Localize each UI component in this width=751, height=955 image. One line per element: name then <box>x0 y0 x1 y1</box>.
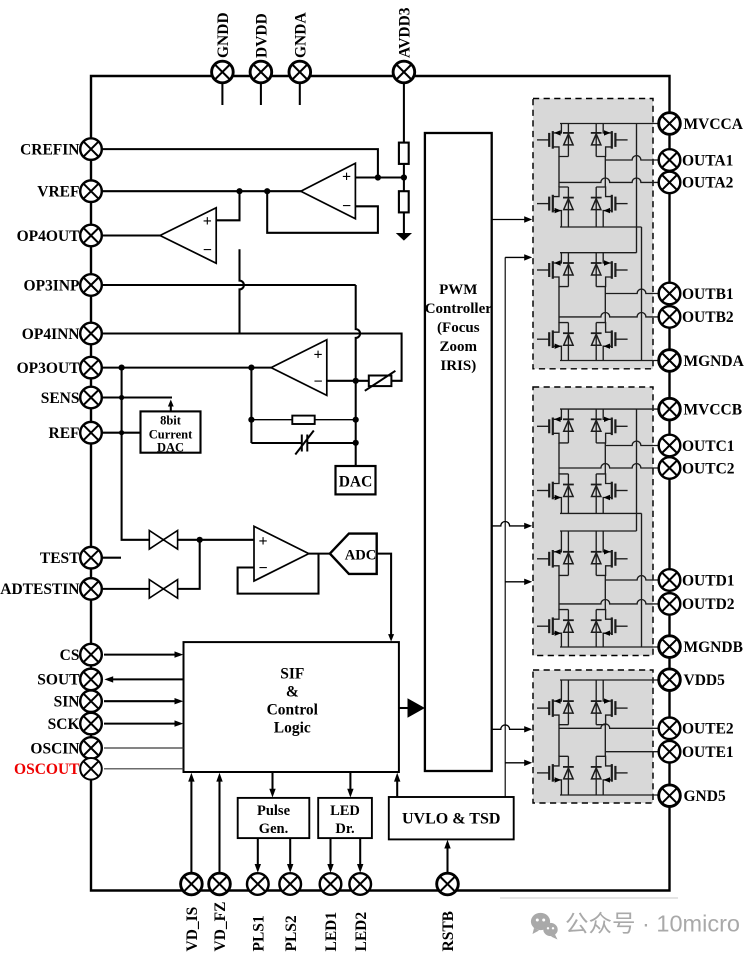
wire bridgeC top rail <box>560 679 670 681</box>
pin OSCIN <box>30 737 101 759</box>
wire bridgeA1 lower output <box>559 178 670 182</box>
wire bridgeB1 left mid node <box>558 443 560 474</box>
pin PLS2 <box>279 873 301 951</box>
wire stub below pin DVDD <box>260 83 262 106</box>
op-amp U2 (OP4) <box>160 208 216 263</box>
block SIF Control Logic <box>184 642 399 772</box>
svg-text:−: − <box>258 560 267 577</box>
op-amp U4 (ADC buffer) <box>254 526 309 581</box>
wire PWM to bridge C phase1 (hop) <box>492 725 533 733</box>
svg-text:OP4OUT: OP4OUT <box>17 228 81 245</box>
pin OUTE1 <box>659 741 734 763</box>
label PWM Controller <box>425 282 493 374</box>
pin OUTB1 <box>659 283 734 305</box>
svg-text:+: + <box>258 533 267 550</box>
wire U3 inverting stub through varistor node <box>327 380 369 382</box>
svg-text:SIF: SIF <box>280 666 304 683</box>
svg-text:DAC: DAC <box>339 474 373 491</box>
wire OP3INP down to U3 network (hop over OP4INN) <box>356 285 360 466</box>
wire R3 line <box>251 419 355 421</box>
transistor Q15 <box>537 610 568 647</box>
diode D4 (body diode) <box>591 187 602 227</box>
diode D14 (body diode) <box>591 531 602 575</box>
label UVLO TSD <box>402 811 500 828</box>
svg-text:VDD5: VDD5 <box>684 672 726 689</box>
svg-text:OP3OUT: OP3OUT <box>17 360 81 377</box>
resistor R1 <box>399 143 409 164</box>
diode D20 (body diode) <box>591 756 602 795</box>
transistor Q12 <box>596 474 627 514</box>
wire bridgeB1 right mid node <box>604 443 606 474</box>
svg-text:LED: LED <box>330 803 360 819</box>
wire U2 noninverting input to VREF <box>216 191 239 220</box>
wire LED Dr to LED2 <box>357 838 363 873</box>
wire REF line <box>92 432 141 434</box>
svg-text:Pulse: Pulse <box>257 803 291 819</box>
svg-text:Logic: Logic <box>274 720 311 737</box>
transistor Q17 <box>537 680 568 725</box>
svg-text:OUTC1: OUTC1 <box>682 438 735 455</box>
resistor R2 <box>399 191 409 212</box>
diode D13 (body diode) <box>563 531 574 575</box>
wire MVCC bus A <box>636 124 638 253</box>
label DAC <box>339 474 373 491</box>
pin MVCCA <box>659 113 744 135</box>
pin MGNDB <box>659 636 743 658</box>
transistor Q10 <box>596 409 627 443</box>
svg-text:CREFIN: CREFIN <box>20 141 79 158</box>
node CREFIN junction <box>375 174 381 180</box>
svg-text:MVCCB: MVCCB <box>684 401 743 418</box>
block LED Dr <box>318 798 372 838</box>
pin OP3INP <box>24 274 102 296</box>
node VREF-A <box>236 188 242 194</box>
svg-text:VREF: VREF <box>37 184 79 201</box>
pin TEST <box>40 547 102 569</box>
wire bridgeA1 left mid node <box>558 157 560 188</box>
transistor Q2 <box>596 124 627 157</box>
wire C1 line right <box>307 442 355 444</box>
wire mux line to comparator input <box>149 539 254 541</box>
node R3 left <box>248 417 254 423</box>
transistor Q1 <box>537 124 568 157</box>
wire bridgeB2 lower output <box>559 600 670 604</box>
transistor Q4 <box>596 187 627 227</box>
svg-text:REF: REF <box>49 425 80 442</box>
block DAC box <box>336 466 376 494</box>
diode D2 (body diode) <box>591 124 602 157</box>
svg-text:SIN: SIN <box>54 694 80 711</box>
pin SCK <box>48 713 102 735</box>
svg-text:OUTB2: OUTB2 <box>682 309 734 326</box>
svg-text:8bit: 8bit <box>160 414 182 428</box>
wire R2 to ground <box>403 212 405 233</box>
wire 8bit DAC output up to SENS <box>168 400 174 412</box>
wire bridgeA2 bottom rail <box>560 360 670 362</box>
wire bridgeB1 top rail <box>560 408 670 410</box>
svg-text:UVLO & TSD: UVLO & TSD <box>402 811 500 828</box>
wire U4 feedback loop <box>238 554 319 594</box>
transistor Q6 <box>596 253 627 287</box>
pin OUTB2 <box>659 306 734 328</box>
svg-text:&: & <box>286 684 299 701</box>
diode D1 (body diode) <box>563 124 574 157</box>
svg-text:−: − <box>203 242 212 259</box>
wire OSCIN to SIF <box>104 747 184 749</box>
svg-text:PLS1: PLS1 <box>250 915 267 951</box>
node divider junction <box>401 174 407 180</box>
wire SIF to SOUT <box>104 676 183 682</box>
svg-text:CS: CS <box>60 647 80 664</box>
pin VREF <box>37 180 102 202</box>
node REF tap <box>119 430 124 435</box>
transistor Q8 <box>596 323 627 361</box>
svg-text:+: + <box>342 169 351 186</box>
svg-text:DVDD: DVDD <box>254 13 271 58</box>
fat arrow SIF to PWM <box>399 698 425 717</box>
transistor Q11 <box>537 474 568 514</box>
svg-text:PLS2: PLS2 <box>283 915 300 951</box>
svg-text:Control: Control <box>267 702 319 719</box>
svg-text:OP3INP: OP3INP <box>24 277 81 294</box>
watermark text <box>565 911 740 937</box>
wire bridgeB1 bottom rail <box>560 512 642 514</box>
wire bridgeA1 upper output <box>605 156 669 160</box>
wire stub below pin GNDA <box>299 83 301 106</box>
svg-text:MGNDA: MGNDA <box>684 353 745 370</box>
wire bridgeA2 top rail <box>560 252 637 254</box>
svg-text:OUTE2: OUTE2 <box>682 721 734 738</box>
svg-text:+: + <box>313 346 322 363</box>
block PWM Controller <box>425 133 492 771</box>
svg-text:Controller: Controller <box>425 301 493 317</box>
transistor Q18 <box>596 680 627 725</box>
label LED Dr <box>330 803 360 837</box>
watermark underline <box>500 897 678 899</box>
svg-text:(Focus: (Focus <box>437 320 480 336</box>
resistor R3 <box>292 416 314 424</box>
pin OP4OUT <box>17 225 102 247</box>
block ADC pentagon <box>330 534 377 574</box>
svg-text:OSCIN: OSCIN <box>30 740 79 757</box>
wire U1 feedback loop <box>267 191 378 233</box>
pin MVCCB <box>659 398 742 420</box>
transistor Q16 <box>596 610 627 647</box>
transistor Q5 <box>537 253 568 287</box>
pin CS <box>60 644 102 666</box>
pin SENS <box>41 387 102 409</box>
svg-text:GNDA: GNDA <box>292 12 309 58</box>
chip outer border <box>91 76 670 891</box>
svg-text:−: − <box>313 373 322 390</box>
op-amp U3 (OP3) <box>271 340 327 396</box>
wire PWM to bridge A phase1 <box>492 216 533 222</box>
svg-text:LED1: LED1 <box>323 912 340 952</box>
wire bridgeA2 upper output <box>605 289 669 293</box>
wire bridgeC right mid node <box>604 725 606 757</box>
node U3 output junction <box>248 365 254 371</box>
transistor Q7 <box>537 323 568 361</box>
node R3 right <box>353 417 359 423</box>
node OP3OUT-tap <box>119 365 125 371</box>
diode D18 (body diode) <box>591 680 602 725</box>
wire SIF down to Pulse Gen <box>269 772 275 798</box>
svg-text:OUTD2: OUTD2 <box>682 596 735 613</box>
wire LED Dr to LED1 <box>327 838 333 873</box>
pin OP4INN <box>22 323 102 345</box>
pin OUTD2 <box>659 593 735 615</box>
pin DVDD (power pad) <box>250 13 272 83</box>
svg-text:SENS: SENS <box>41 390 80 407</box>
pin AVDD3 (power pad) <box>393 7 415 83</box>
transmission gate TG2 <box>149 580 177 599</box>
svg-text:MVCCA: MVCCA <box>684 116 744 133</box>
wire U2 inverting input down to OP4INN line (hop over OP3INP) <box>240 249 244 333</box>
wire ADC output to SIF <box>377 554 394 642</box>
wire R1 to R2 <box>403 164 405 191</box>
wire bridgeA2 left mid node <box>558 287 560 323</box>
wire OP3INP line <box>92 284 356 286</box>
driver block A (gray dashed box) <box>533 99 653 369</box>
svg-text:SCK: SCK <box>48 716 80 733</box>
block 8bit Current DAC <box>141 411 201 452</box>
label SIF Control Logic <box>267 666 319 737</box>
pin OUTC2 <box>659 457 735 479</box>
svg-text:Zoom: Zoom <box>440 339 478 355</box>
pin OUTC1 <box>659 435 735 457</box>
pin GND5 <box>659 785 726 807</box>
wire CS to SIF <box>104 651 183 657</box>
pin ADTESTIN <box>0 578 102 600</box>
svg-text:+: + <box>203 213 212 230</box>
transmission gate TG1 <box>149 531 177 550</box>
pin OSCOUT <box>14 758 102 780</box>
svg-text:OUTA1: OUTA1 <box>682 152 733 169</box>
wire SIN to SIF <box>104 698 183 704</box>
diode D15 (body diode) <box>563 610 574 647</box>
wire bridgeC lower output <box>605 751 669 753</box>
pin LED1 <box>320 873 342 951</box>
wire C1 line left <box>251 442 301 444</box>
wire Pulse Gen to PLS1 <box>255 838 261 873</box>
pin VD_IS <box>181 873 203 951</box>
svg-text:GNDD: GNDD <box>215 12 232 58</box>
svg-text:OUTE1: OUTE1 <box>682 744 734 761</box>
wire OP3OUT node down to R3/C1 <box>250 368 252 443</box>
wire Pulse Gen to PLS2 <box>287 838 293 873</box>
svg-text:PWM: PWM <box>439 282 477 298</box>
diode D7 (body diode) <box>563 323 574 361</box>
wire UVLO up to SIF <box>394 773 400 797</box>
label ADC <box>345 547 377 563</box>
wire bridgeB2 upper output <box>605 576 669 580</box>
svg-text:OSCOUT: OSCOUT <box>14 761 80 778</box>
transistor Q9 <box>537 409 568 443</box>
pin MGNDA <box>659 350 745 372</box>
wire OP4INN line <box>92 334 402 381</box>
block Pulse Gen <box>238 798 310 838</box>
pin PLS1 <box>247 873 269 951</box>
op-amp U1 (VREF buffer) <box>301 163 356 218</box>
wire bridgeB2 bottom rail <box>560 646 670 648</box>
pin LED2 <box>349 873 371 951</box>
svg-text:OUTC2: OUTC2 <box>682 460 735 477</box>
transistor Q3 <box>537 187 568 227</box>
label Pulse Gen <box>257 803 291 837</box>
wire TEST stub <box>92 557 121 559</box>
transistor Q20 <box>596 756 627 795</box>
svg-text:VD_FZ: VD_FZ <box>212 902 229 952</box>
wire VD_IS up to SIF <box>188 773 194 874</box>
svg-text:RSTB: RSTB <box>440 911 457 952</box>
diode D10 (body diode) <box>591 409 602 443</box>
wire PWM to bridge B phase1 (hop) <box>492 522 533 530</box>
svg-text:Dr.: Dr. <box>335 821 354 837</box>
svg-text:Gen.: Gen. <box>259 821 288 837</box>
wire bus to bridge A phase2 <box>505 254 532 260</box>
pin OUTE2 <box>659 718 734 740</box>
wire OSCOUT to SIF <box>104 768 184 770</box>
svg-text:Current: Current <box>149 428 193 442</box>
wire SENS line <box>92 396 172 398</box>
wire bridgeC bottom rail <box>560 794 670 796</box>
svg-text:VD_IS: VD_IS <box>184 907 201 952</box>
pin VD_FZ <box>209 873 231 951</box>
wire U1 noninverting input to divider node <box>355 176 404 178</box>
block UVLO and TSD <box>389 797 514 839</box>
node C1 right <box>353 440 359 446</box>
svg-text:GND5: GND5 <box>684 788 726 805</box>
diode D9 (body diode) <box>563 409 574 443</box>
node VREF-B <box>264 188 270 194</box>
wire bridgeA1 bottom rail <box>560 226 642 228</box>
wire SCK to SIF <box>104 720 183 726</box>
wire stub below pin GNDD <box>221 83 223 106</box>
wire OP3OUT tap down to mux <box>122 368 150 540</box>
pin OUTD1 <box>659 569 735 591</box>
pin SIN <box>54 690 102 712</box>
svg-text:OUTD1: OUTD1 <box>682 572 735 589</box>
wire bridgeC left mid node <box>558 725 560 757</box>
svg-text:−: − <box>342 198 351 215</box>
label 8bit Current DAC <box>149 414 193 455</box>
node mux junction <box>197 537 203 543</box>
pin SOUT <box>37 669 102 691</box>
wire CREFIN to U1 noninverting input <box>92 149 378 177</box>
svg-text:AVDD3: AVDD3 <box>397 7 414 58</box>
diode D3 (body diode) <box>563 187 574 227</box>
svg-text:LED2: LED2 <box>353 912 370 952</box>
driver block C (gray dashed box) <box>533 670 653 803</box>
wire driver enable bus <box>504 257 506 797</box>
wire MGND bus A <box>641 227 643 361</box>
pin RSTB <box>437 873 459 951</box>
wire bridgeA2 right mid node <box>604 287 606 323</box>
wire bridgeA1 right mid node <box>604 157 606 188</box>
wire bridgeB2 left mid node <box>558 575 560 609</box>
wire bus to bridge B phase2 <box>505 579 532 585</box>
wire bridgeB1 lower output <box>559 464 670 468</box>
node U3 inverting input <box>353 378 359 384</box>
wire bridgeB2 top rail <box>560 530 637 532</box>
transistor Q19 <box>537 756 568 795</box>
pin GNDD (power pad) <box>212 12 234 82</box>
diode D11 (body diode) <box>563 474 574 514</box>
varistor RV1 <box>365 371 396 391</box>
svg-text:ADC: ADC <box>345 547 377 563</box>
wire bridgeA2 lower output <box>559 312 670 316</box>
diode D19 (body diode) <box>563 756 574 795</box>
wire AVDD3 to resistor divider <box>403 81 405 144</box>
wire RSTB up to UVLO <box>444 840 450 874</box>
pin OUTA2 <box>659 172 734 194</box>
svg-text:IRIS): IRIS) <box>440 358 476 374</box>
pin VDD5 <box>659 669 725 691</box>
node SENS tap <box>119 395 124 400</box>
wire bridgeB2 right mid node <box>604 575 606 609</box>
pin CREFIN <box>20 138 102 160</box>
svg-text:ADTESTIN: ADTESTIN <box>0 581 79 598</box>
watermark icon <box>531 913 558 940</box>
diode D5 (body diode) <box>563 253 574 287</box>
svg-text:OUTA2: OUTA2 <box>682 175 734 192</box>
wire bridgeB1 upper output <box>605 441 669 445</box>
wire ADTESTIN line <box>92 540 200 589</box>
pin OP3OUT <box>17 357 102 379</box>
wire U4 output <box>309 553 330 555</box>
wire SIF down to LED Dr <box>347 772 353 798</box>
pin REF <box>49 422 102 444</box>
svg-text:MGNDB: MGNDB <box>684 639 743 656</box>
capacitor C1 (trimmer) <box>295 431 314 455</box>
diode D16 (body diode) <box>591 610 602 647</box>
wire OP3OUT to U3 output <box>92 367 271 369</box>
diode D12 (body diode) <box>591 474 602 514</box>
diode D17 (body diode) <box>563 680 574 725</box>
pin OUTA1 <box>659 149 734 171</box>
svg-text:TEST: TEST <box>40 550 80 567</box>
wire bus to bridge C phase2 <box>505 760 532 766</box>
svg-text:SOUT: SOUT <box>37 672 80 689</box>
transistor Q13 <box>537 531 568 575</box>
wire VREF line to U1 output <box>92 190 301 192</box>
wire bridgeA1 top rail <box>560 123 670 125</box>
svg-text:OP4INN: OP4INN <box>22 326 80 343</box>
driver block B (gray dashed box) <box>533 387 653 656</box>
svg-text:公众号 · 10micro: 公众号 · 10micro <box>565 911 740 937</box>
wire VD_FZ up to SIF <box>216 773 222 874</box>
svg-text:DAC: DAC <box>157 441 184 455</box>
svg-text:OUTB1: OUTB1 <box>682 286 734 303</box>
diode D6 (body diode) <box>591 253 602 287</box>
wire MGND bus B <box>641 513 643 647</box>
pin GNDA (power pad) <box>289 12 311 83</box>
wire MVCC bus B <box>636 409 638 531</box>
wire bridgeC upper output <box>559 724 670 728</box>
diode D8 (body diode) <box>591 323 602 361</box>
transistor Q14 <box>596 531 627 575</box>
wire OP4OUT to U2 output <box>92 234 160 236</box>
ground <box>397 234 410 240</box>
